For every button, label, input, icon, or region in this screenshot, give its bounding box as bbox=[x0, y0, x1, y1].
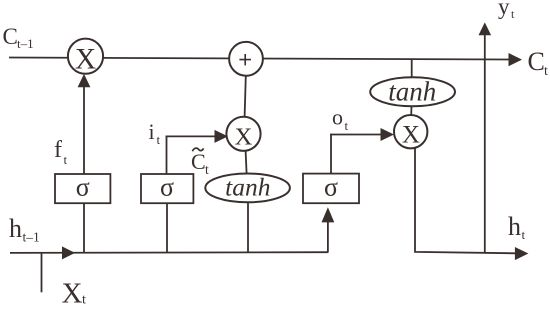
svg-text:X: X bbox=[402, 121, 420, 148]
add node plus bbox=[229, 42, 263, 76]
sigma box o gate bbox=[303, 174, 359, 204]
svg-text:t: t bbox=[544, 64, 548, 79]
tanh ellipse middle bbox=[205, 174, 290, 203]
wire sigma-i up segment bbox=[166, 136, 168, 174]
wire sigma-f to h line bbox=[83, 203, 85, 253]
svg-text:y: y bbox=[498, 0, 510, 19]
multiply node X2 input gate bbox=[226, 117, 260, 151]
svg-text:t: t bbox=[82, 293, 86, 308]
arrowhead Ct output bbox=[509, 53, 523, 66]
wire plus to X2 bbox=[245, 76, 246, 117]
svg-text:t: t bbox=[205, 162, 209, 177]
wire i to X2 horizontal bbox=[166, 135, 215, 137]
svg-text:t: t bbox=[345, 118, 349, 133]
wire X4 down and right segment of h line bbox=[415, 148, 516, 254]
svg-text:t–1: t–1 bbox=[23, 230, 40, 245]
tanh ellipse right bbox=[370, 77, 455, 106]
wire hidden-state line h left segment bbox=[10, 251, 328, 254]
svg-text:t–1: t–1 bbox=[17, 36, 34, 51]
arrowhead bottom-left merge bbox=[62, 246, 75, 259]
wire h line up to sigma-o bbox=[327, 222, 329, 253]
svg-text:h: h bbox=[508, 212, 521, 241]
wire tanh right to X4 bbox=[410, 106, 412, 115]
plus sign bbox=[239, 54, 251, 65]
wire C line to tanh right bbox=[411, 59, 413, 77]
svg-text:f: f bbox=[54, 137, 62, 163]
svg-text:h: h bbox=[9, 214, 22, 243]
svg-text:C: C bbox=[528, 47, 545, 76]
sigma box f gate bbox=[55, 174, 110, 203]
svg-text:σ: σ bbox=[160, 173, 174, 202]
wire sigma-f to X1 bbox=[83, 87, 85, 175]
svg-text:C: C bbox=[3, 24, 18, 49]
multiply node X1 forget gate bbox=[68, 39, 103, 74]
svg-text:t: t bbox=[511, 7, 515, 21]
svg-text:X: X bbox=[75, 43, 96, 75]
arrowhead into sigma-o bbox=[322, 207, 335, 222]
svg-text:σ: σ bbox=[324, 173, 338, 202]
svg-text:σ: σ bbox=[76, 173, 90, 202]
arrowhead into X1 bbox=[78, 74, 91, 87]
arrowhead into X4 bbox=[381, 128, 395, 141]
svg-text:X: X bbox=[62, 278, 83, 310]
wire Xt input stub bbox=[41, 253, 43, 292]
sigma box i gate bbox=[141, 174, 193, 203]
svg-text:C: C bbox=[191, 149, 206, 174]
svg-text:i: i bbox=[149, 119, 155, 144]
svg-text:tanh: tanh bbox=[388, 76, 436, 106]
wire X2 to tanh bbox=[246, 151, 247, 174]
arrowhead into X2 bbox=[215, 130, 229, 143]
svg-text:t: t bbox=[64, 152, 68, 167]
wire yt vertical line bbox=[484, 34, 486, 253]
wire o to X4 horizontal bbox=[330, 134, 381, 136]
multiply node X4 output gate bbox=[394, 115, 427, 148]
svg-text:tanh: tanh bbox=[225, 172, 270, 201]
wire tanh to h line bbox=[247, 202, 249, 253]
arrowhead ht output bbox=[515, 247, 529, 260]
svg-text:t: t bbox=[522, 227, 526, 242]
wire sigma-i to h line bbox=[166, 203, 168, 253]
wire cell-state line C bbox=[9, 58, 509, 60]
svg-text:t: t bbox=[157, 132, 161, 147]
arrowhead yt up bbox=[479, 22, 492, 35]
svg-text:X: X bbox=[235, 123, 253, 150]
tilde over C bbox=[192, 148, 203, 151]
svg-text:o: o bbox=[332, 105, 343, 130]
wire sigma-o up segment bbox=[330, 134, 332, 174]
